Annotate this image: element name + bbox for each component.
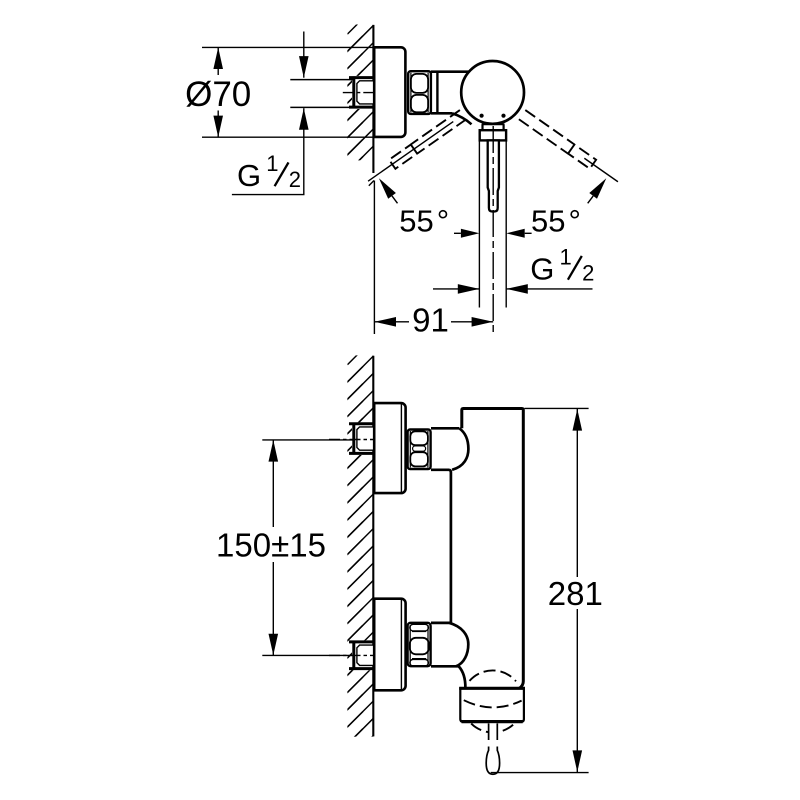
dia 70 extension lines — [202, 46, 373, 48]
55deg arc arrow upper left — [379, 178, 396, 199]
escutcheon flange (top view) — [374, 47, 405, 137]
screw dots on circle — [480, 114, 484, 118]
wall hatch (front view) — [347, 349, 374, 762]
wall hatch stub below wall (top view) — [369, 181, 374, 186]
55deg arc arrow upper right — [589, 178, 606, 199]
svg-text:1: 1 — [266, 151, 278, 176]
281 extension lines — [525, 407, 589, 409]
lower hex nut (front view) — [408, 623, 431, 666]
G1/2 dimension arrows (collar) — [433, 288, 479, 290]
valve body edges (top view) — [431, 70, 469, 73]
wall surface line (front view) — [372, 356, 374, 737]
55deg arrow at center left — [461, 229, 480, 238]
supply pipe thin lines (top view) — [290, 79, 353, 81]
svg-text:91: 91 — [412, 302, 449, 339]
ball joint dashed circle (front view) — [470, 670, 517, 732]
supply pipe in wall, bold outline (top view) — [349, 76, 374, 108]
upper supply pipe bold outline (front view) — [349, 423, 374, 455]
150 dimension line with arrows — [272, 440, 274, 527]
upper hex nut (front view) — [408, 430, 431, 470]
upper pipe hex inner profile — [357, 427, 374, 450]
handle neck below circle (top view) — [482, 123, 505, 125]
lower pipe centerline — [329, 654, 373, 656]
upper pipe centerline — [329, 439, 373, 441]
wall hatch (top view) — [347, 19, 374, 173]
svg-text:G: G — [237, 158, 261, 193]
svg-text:2: 2 — [582, 261, 594, 286]
upper boss with dome (front view) — [431, 428, 468, 623]
dia 70 dimension line with arrows — [217, 47, 219, 75]
55deg arrow at center right — [506, 229, 525, 238]
upper escutcheon flange (front view) — [374, 403, 405, 493]
main body outline (front view) — [462, 409, 524, 689]
svg-text:281: 281 — [548, 575, 603, 612]
handle centerline (top view) — [492, 126, 494, 334]
handle collar (top view) — [480, 130, 506, 140]
91 dimension — [373, 181, 375, 335]
G1/2 extension lines (collar) — [478, 142, 480, 308]
svg-text:Ø70: Ø70 — [185, 75, 251, 114]
connection cylinder (top view) — [436, 72, 438, 114]
lever axis extension line right — [584, 158, 618, 182]
valve body circle (top view) — [461, 61, 524, 124]
281 dimension line with arrows — [576, 409, 578, 577]
150 dimension extension lines — [262, 439, 353, 441]
pipe hex inner profile (top view) — [357, 81, 374, 104]
pipe centerline (top view) — [343, 92, 374, 94]
svg-text:G: G — [530, 252, 554, 287]
lower pipe hex inner profile — [357, 645, 374, 665]
svg-text:2: 2 — [289, 167, 301, 192]
lever axis extension line left — [368, 122, 453, 182]
wall surface line (top view) — [372, 25, 374, 173]
G1/2 dimension line upper (pipe) — [303, 32, 305, 78]
lower boss with dome (front view) — [431, 623, 468, 688]
hex nut (top view) — [408, 71, 431, 114]
lower escutcheon flange (front view) — [374, 599, 405, 691]
text G 1/2 right — [530, 244, 594, 286]
lower supply pipe bold outline (front view) — [349, 641, 374, 670]
svg-text:55°: 55° — [399, 203, 449, 238]
seat rim dashed arc inside cap — [464, 700, 522, 707]
dashed lever rotated right 55deg — [519, 110, 596, 169]
dashed lever rotated left 55deg — [389, 110, 466, 169]
svg-text:1: 1 — [560, 244, 572, 269]
svg-text:55°: 55° — [531, 203, 581, 238]
text G 1/2 upper left — [232, 151, 305, 195]
outlet nub (front view) — [486, 723, 499, 774]
outlet cap (front view) — [459, 688, 525, 721]
handle lever shaft (top view) — [488, 140, 499, 211]
svg-text:150±15: 150±15 — [216, 526, 326, 563]
